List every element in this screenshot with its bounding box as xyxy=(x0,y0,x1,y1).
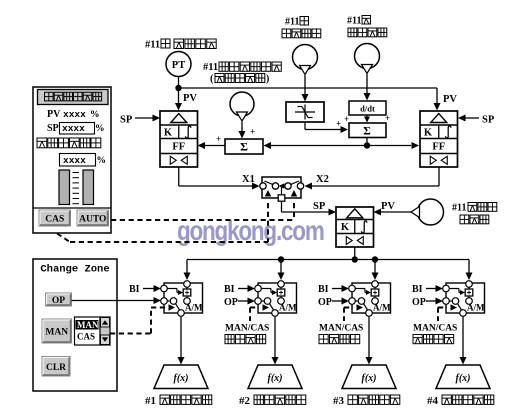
svg-text:SP: SP xyxy=(482,115,495,126)
transmitter actual coal flow balloon xyxy=(418,199,444,225)
svg-text:+: + xyxy=(216,134,221,144)
switch output square xyxy=(278,195,285,201)
svg-text:#3: #3 xyxy=(333,395,345,407)
A/M 2 contact circles xyxy=(278,281,285,288)
svg-text:BI: BI xyxy=(318,284,329,295)
panel 主汽压力调节 faceplate xyxy=(33,87,111,233)
wire sigma2 down to FF bus xyxy=(366,138,368,146)
svg-text:+: + xyxy=(250,127,255,137)
label 给煤量 xyxy=(460,215,469,224)
rate limiter function box xyxy=(286,102,324,122)
svg-text:K: K xyxy=(424,128,433,139)
BI stub col3 xyxy=(332,288,343,290)
svg-text:A/M: A/M xyxy=(279,303,297,313)
svg-text:#11: #11 xyxy=(347,16,361,27)
derivative block d/dt xyxy=(349,101,386,115)
wire switch to PID3 SP xyxy=(281,201,283,212)
svg-text:xxxx: xxxx xyxy=(63,155,86,166)
svg-text:Change Zone: Change Zone xyxy=(40,264,109,276)
label 控制方式 col4 xyxy=(413,335,422,344)
svg-text:Σ: Σ xyxy=(363,126,371,138)
function block f(x) 2 xyxy=(248,365,302,389)
transmitter drum-press balloon xyxy=(355,44,380,69)
node PID3 output junction xyxy=(352,256,358,262)
svg-text:#11: #11 xyxy=(145,40,160,51)
svg-text:OP: OP xyxy=(412,297,426,308)
A/M station 4 box xyxy=(446,283,485,313)
PID1 K | integral row xyxy=(178,125,180,139)
button CLR xyxy=(42,357,70,377)
svg-text:d/dt: d/dt xyxy=(360,104,375,114)
summer sigma2 xyxy=(349,123,386,138)
svg-text:#11: #11 xyxy=(452,203,466,214)
svg-text:X2: X2 xyxy=(316,174,329,185)
svg-text:SP: SP xyxy=(313,201,326,212)
slider bar left xyxy=(59,170,70,205)
A/M 4 internal wires xyxy=(468,288,470,305)
svg-text:A/M: A/M xyxy=(467,303,485,313)
svg-text:K: K xyxy=(341,222,350,233)
transmitter bed-temp balloon xyxy=(293,45,318,70)
button OP xyxy=(46,293,72,306)
svg-text:A/M: A/M xyxy=(185,303,203,313)
transmitter load-command balloon xyxy=(230,92,254,116)
PID controller 2 (backup/second boiler master) xyxy=(420,111,458,167)
dropdown MAN/CAS list xyxy=(75,317,101,345)
panel Change Zone xyxy=(33,259,117,391)
A/M 3 internal wires xyxy=(374,288,376,305)
panel separator line xyxy=(33,207,111,209)
svg-text:PV: PV xyxy=(47,109,61,120)
wire A/M 3 to f(x) xyxy=(368,317,370,358)
svg-text:MAN/CAS: MAN/CAS xyxy=(225,324,269,334)
svg-text:f(x): f(x) xyxy=(362,373,377,384)
function block f(x) 4 xyxy=(436,365,490,389)
button CAS xyxy=(39,210,71,226)
svg-text:K: K xyxy=(164,128,173,139)
button MAN xyxy=(42,319,72,343)
function block f(x) 3 xyxy=(342,365,396,389)
svg-text:%: % xyxy=(90,110,100,120)
wire PT to PV junction xyxy=(178,77,180,86)
svg-text:SP: SP xyxy=(120,115,133,126)
wire A/M 4 to f(x) xyxy=(462,317,464,358)
wire bus drop to A/M 1 xyxy=(186,260,188,274)
dashed MAN/CAS stub col3 xyxy=(344,307,353,309)
label 控制方式 col2 xyxy=(225,335,234,344)
distribution bus wire xyxy=(187,259,469,261)
OP stub col3 xyxy=(332,300,343,302)
svg-text:+: + xyxy=(336,119,341,129)
svg-text:CLR: CLR xyxy=(46,363,66,373)
wire d/dt to sigma2 xyxy=(366,115,368,118)
wire PID1 output to X1 xyxy=(178,168,180,187)
node FF bus junction xyxy=(364,142,370,148)
function block f(x) 1 xyxy=(154,365,208,389)
node drop2 junction xyxy=(278,256,284,262)
wire load balloon to sigma1 xyxy=(241,122,243,134)
svg-text:CAS: CAS xyxy=(45,215,64,225)
svg-text:f(x): f(x) xyxy=(268,373,283,384)
PID2 limit triangles xyxy=(430,156,436,164)
svg-text:PV: PV xyxy=(443,94,457,105)
wire bus drop to A/M 2 xyxy=(280,260,282,274)
node drop3 junction xyxy=(372,256,378,262)
svg-text:MAN: MAN xyxy=(77,320,99,330)
svg-text:#2: #2 xyxy=(239,395,251,407)
wire FF bus to PID2 FF xyxy=(367,145,411,147)
PID3 K | integral row xyxy=(354,220,356,234)
wire drum-press balloon to d/dt xyxy=(366,74,368,95)
wire PID3 output down xyxy=(354,248,356,260)
OP stub col2 xyxy=(238,300,249,302)
wire OP button to A/M 1 xyxy=(72,300,155,302)
svg-text:FF: FF xyxy=(432,142,445,153)
BI stub col4 xyxy=(426,288,437,290)
svg-text:xxxx: xxxx xyxy=(63,109,86,120)
svg-text:BI: BI xyxy=(129,284,140,295)
svg-text:CAS: CAS xyxy=(77,332,95,342)
svg-text:A/M: A/M xyxy=(373,303,391,313)
svg-text:%: % xyxy=(95,124,105,134)
text 负荷分配设定 xyxy=(37,138,47,148)
svg-text:MAN/CAS: MAN/CAS xyxy=(413,324,457,334)
wire PV down into PID1 xyxy=(178,88,180,105)
entry box xxxx % xyxy=(60,154,96,167)
svg-text:PV: PV xyxy=(183,93,197,104)
wire bus drop to A/M 4 xyxy=(468,260,470,274)
svg-text:#11: #11 xyxy=(203,62,218,73)
transfer switch T block xyxy=(262,177,301,198)
dashed wire dropdown to A/M 1 xyxy=(110,333,151,335)
PID2 deviation triangle xyxy=(431,114,447,123)
A/M 2 summing square xyxy=(277,289,285,296)
svg-text:MAN: MAN xyxy=(45,328,68,338)
A/M 1 contact circles xyxy=(184,281,191,288)
switch centre tap wire xyxy=(281,187,283,195)
node PV junction xyxy=(175,85,181,91)
svg-text:BI: BI xyxy=(224,284,235,295)
A/M station 1 box xyxy=(164,283,203,313)
wire bus drop to A/M 3 xyxy=(374,260,376,274)
wire actual-coal balloon to PID3 PV xyxy=(380,211,411,213)
svg-text:#11: #11 xyxy=(285,17,299,28)
A/M 3 summing square xyxy=(371,289,379,296)
PID3 limit triangles xyxy=(346,237,352,245)
switch blade right xyxy=(288,181,300,186)
PID1 deviation triangle xyxy=(171,114,187,123)
svg-text:PV: PV xyxy=(381,201,395,212)
svg-text:PT: PT xyxy=(172,60,185,71)
dashed MAN/CAS stub col2 xyxy=(250,307,259,309)
summer sigma1 xyxy=(225,139,263,154)
switch contact circles xyxy=(260,183,266,189)
wire A/M 1 to f(x) xyxy=(180,317,182,358)
dashed line from AUTO button xyxy=(111,219,294,221)
wire PID2 output to X2 xyxy=(438,168,440,187)
dashed MAN/CAS stub col4 xyxy=(438,307,447,309)
svg-text:OP: OP xyxy=(224,297,238,308)
dropdown scrollbar xyxy=(100,317,110,345)
wire limiter to sigma2 xyxy=(304,122,306,130)
wire A/M 2 to f(x) xyxy=(274,317,276,358)
dashed CAS select arrow into switch xyxy=(267,203,269,242)
PID3 deviation triangle xyxy=(347,209,363,218)
PID controller 3 (fuel master) xyxy=(336,207,374,247)
slider scale ticks xyxy=(73,172,80,174)
slider bar right xyxy=(83,170,94,205)
svg-text:xxxx: xxxx xyxy=(62,123,85,134)
A/M 1 summing square xyxy=(183,289,191,296)
svg-text:BI: BI xyxy=(412,284,423,295)
A/M 4 contact circles xyxy=(466,281,473,288)
wire sigma1 to PID1 FF xyxy=(204,145,225,147)
dashed line from CAS button xyxy=(57,234,70,243)
OP stub col4 xyxy=(426,300,437,302)
A/M station 2 box xyxy=(258,283,297,313)
svg-text:#1: #1 xyxy=(145,395,156,407)
svg-text:AUTO: AUTO xyxy=(79,215,106,225)
svg-text:OP: OP xyxy=(52,296,65,306)
svg-text:Σ: Σ xyxy=(240,140,248,154)
svg-text:f(x): f(x) xyxy=(456,373,471,384)
panel title bar 主汽压力调节 xyxy=(38,90,109,105)
BI stub col1 xyxy=(143,288,155,290)
svg-text:#4: #4 xyxy=(427,395,439,407)
wire bed-temp balloon to limiter xyxy=(304,75,306,96)
transmitter PT xyxy=(166,52,191,77)
svg-text:+: + xyxy=(385,113,390,123)
PID1 limit triangles xyxy=(170,156,176,164)
A/M 1 internal wires xyxy=(186,288,188,305)
button AUTO xyxy=(77,210,109,226)
svg-text:): ) xyxy=(266,74,269,85)
svg-text:%: % xyxy=(97,156,107,166)
svg-text:SP: SP xyxy=(47,123,59,134)
svg-text:FF: FF xyxy=(172,142,185,153)
svg-text:OP: OP xyxy=(318,297,332,308)
A/M 3 contact circles xyxy=(372,281,379,288)
switch blade left xyxy=(265,181,277,186)
wire sigma2 junction to sigma1 xyxy=(270,145,367,147)
PID controller 1 (main steam pressure) xyxy=(160,111,198,167)
A/M station 3 box xyxy=(352,283,391,313)
switch centre tap arrow xyxy=(279,183,285,189)
label 控制方式 col3 xyxy=(319,335,328,344)
BI stub col2 xyxy=(238,288,249,290)
svg-text:MAN/CAS: MAN/CAS xyxy=(319,324,363,334)
svg-text:f(x): f(x) xyxy=(174,373,189,384)
wire PV junction to PID2 top xyxy=(179,87,438,89)
A/M 2 internal wires xyxy=(280,288,282,305)
A/M 4 summing square xyxy=(465,289,473,296)
dashed AUTO select arrow into switch xyxy=(293,203,295,220)
PID2 K | integral row xyxy=(438,125,440,139)
svg-text:X1: X1 xyxy=(242,174,255,185)
